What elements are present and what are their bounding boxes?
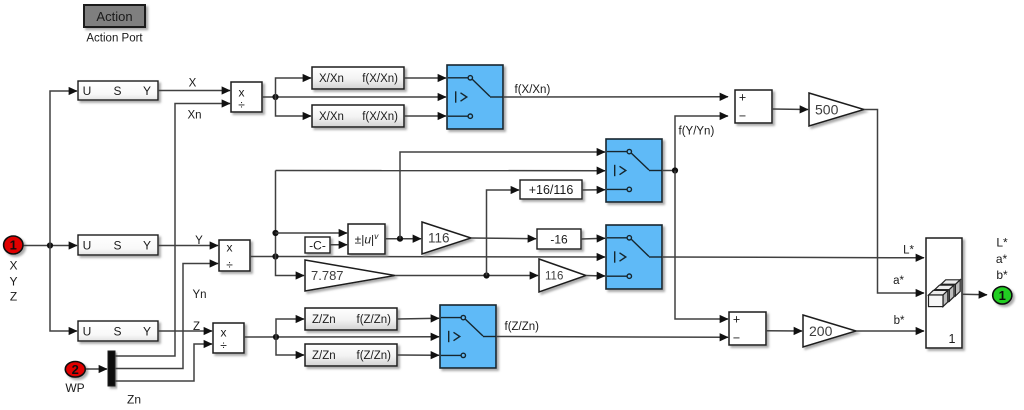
svg-text:x: x: [221, 326, 227, 340]
wire f(Y/Yn) to sum1 minus: [672, 116, 728, 174]
wire fcn X1 to switch1 in1: [404, 77, 446, 79]
svg-text:−: −: [739, 109, 746, 123]
wire switch3 to concat L*: [662, 256, 924, 259]
wire 7.787 to gain 116 lower: [395, 272, 538, 278]
svg-text:Y: Y: [143, 84, 151, 98]
wire switch1 to sum1 plus: [503, 96, 728, 98]
wire branch to bias +16/116: [487, 190, 520, 276]
wire junction up to selector X: [50, 91, 77, 246]
demux WP: [108, 351, 115, 386]
sum2 (fY - fZ): [729, 312, 766, 345]
svg-text:500: 500: [815, 101, 839, 117]
svg-text:1: 1: [949, 332, 956, 346]
svg-text:Yn: Yn: [192, 289, 206, 301]
svg-text:Action Port: Action Port: [86, 33, 143, 45]
svg-text:Z/Zn: Z/Zn: [312, 350, 336, 362]
subsystem f(X/Xn) lower: [312, 105, 404, 127]
bias +16/116 block: [520, 180, 582, 199]
svg-text:Z: Z: [193, 321, 200, 333]
product Z (z/Zn divide): [213, 323, 244, 353]
svg-text:+: +: [739, 90, 746, 104]
wire selector X to product X: [158, 90, 230, 92]
svg-text:−: −: [733, 331, 740, 345]
math power block |u|^v: [348, 224, 385, 254]
wire -16 to switch3 in1: [581, 237, 605, 240]
wire fcn X2 to switch1 in3: [404, 115, 446, 117]
wire switch4 to sum2 minus: [496, 336, 728, 339]
constant -C- (exponent): [305, 237, 330, 253]
subsystem f(Z/Zn) upper: [305, 308, 397, 330]
wire branch to fcn Z1: [276, 319, 304, 337]
wire Y ratio to power block: [276, 232, 348, 234]
svg-text:X/Xn: X/Xn: [319, 73, 344, 85]
switch1 f(X/Xn): [447, 65, 503, 129]
gain 7.787: [305, 260, 395, 291]
subsystem f(X/Xn) upper: [312, 67, 404, 89]
svg-text:f(X/Xn): f(X/Xn): [515, 84, 551, 96]
inport 2 (WP): [65, 362, 85, 378]
svg-text:L*: L*: [996, 236, 1008, 250]
wire +16/116 to switch2 in3: [582, 189, 605, 191]
svg-text:U: U: [83, 325, 92, 339]
svg-text:Action: Action: [96, 9, 132, 24]
wire demux Yn to product Y: [115, 264, 218, 369]
svg-text:b*: b*: [996, 268, 1008, 282]
svg-text:Z: Z: [10, 290, 17, 304]
wire sum2 to gain 200: [766, 330, 802, 332]
wire junction down to selector Z: [50, 246, 77, 332]
wire gain200 to concat b*: [856, 330, 924, 332]
wire selector Y to product Y: [158, 245, 218, 247]
svg-text:Y: Y: [9, 275, 17, 289]
svg-text:+: +: [733, 312, 740, 326]
wire fcn Z2 to switch4 in3: [397, 354, 439, 356]
svg-text:x: x: [227, 241, 233, 255]
svg-text:X/Xn: X/Xn: [319, 111, 344, 123]
wire power to gain 116 upper: [385, 236, 421, 242]
svg-text:116: 116: [545, 271, 563, 283]
wire -C- to power block: [330, 244, 347, 246]
wire fcn Z1 to switch4 in1: [397, 317, 439, 320]
svg-text:÷: ÷: [238, 98, 245, 112]
wire inport1 to selector Y: [24, 242, 78, 248]
inport 1 (XYZ): [4, 236, 23, 254]
svg-text:U: U: [83, 84, 92, 98]
wire demux Zn to product Z: [115, 344, 212, 381]
wire gain116 lower to switch3 in3: [586, 275, 605, 278]
wire gain500 to concat a*: [864, 110, 924, 294]
svg-text:WP: WP: [65, 381, 84, 395]
svg-text:7.787: 7.787: [311, 268, 344, 283]
gain 116 upper: [422, 222, 471, 254]
svg-text:a*: a*: [996, 252, 1008, 266]
wire branch to fcn X1: [276, 78, 312, 97]
svg-text:116: 116: [428, 231, 450, 246]
wire Y ratio to switch3 control: [272, 253, 605, 259]
subsystem f(Z/Zn) lower: [305, 344, 397, 366]
wire inport2 to demux: [86, 368, 107, 370]
svg-text:Zn: Zn: [127, 393, 141, 407]
selector Z (U S Y): [78, 321, 158, 341]
svg-text:1: 1: [10, 238, 17, 253]
svg-text:200: 200: [809, 323, 833, 339]
svg-text:U: U: [83, 239, 92, 253]
wire Y ratio to switch2 control: [276, 170, 606, 172]
wire switch2 out f(Y/Yn): [662, 170, 675, 172]
svg-text:S: S: [113, 239, 121, 253]
product X (x/Xn divide): [231, 82, 262, 112]
wire gain116 to bias -16: [471, 237, 536, 240]
svg-text:Z/Zn: Z/Zn: [312, 314, 336, 326]
svg-text:÷: ÷: [226, 258, 233, 272]
svg-text:+16/116: +16/116: [529, 183, 574, 197]
wire product X to switch1 control: [262, 94, 446, 100]
wire branch to fcn Z2: [276, 337, 304, 355]
switch3 L*: [606, 225, 662, 289]
svg-text:2: 2: [72, 362, 79, 377]
outport 1 (Lab): [993, 287, 1012, 305]
svg-text:L*: L*: [903, 245, 914, 257]
svg-text:f(Z/Zn): f(Z/Zn): [357, 350, 392, 362]
svg-text:Y: Y: [143, 239, 151, 253]
svg-text:Y: Y: [195, 235, 203, 247]
svg-text:f(Z/Zn): f(Z/Zn): [357, 314, 392, 326]
gain 200: [803, 315, 856, 347]
svg-text:X: X: [189, 78, 197, 90]
gain 500: [809, 93, 864, 126]
wire concat to outport: [962, 293, 987, 296]
svg-text:X: X: [9, 259, 17, 273]
switch4 f(Z/Zn): [440, 305, 496, 368]
svg-text:1: 1: [999, 288, 1006, 303]
wire branch to fcn X2: [276, 97, 312, 116]
gain 116 lower: [539, 259, 586, 292]
wire product Y out: [250, 256, 276, 258]
svg-text:÷: ÷: [220, 339, 227, 353]
svg-text:f(Z/Zn): f(Z/Zn): [505, 321, 540, 333]
svg-text:S: S: [113, 325, 121, 339]
vector concatenate block: [926, 238, 962, 348]
svg-text:Xn: Xn: [187, 110, 201, 122]
svg-text:-16: -16: [550, 233, 568, 247]
selector X (U S Y): [78, 81, 158, 100]
svg-text:a*: a*: [893, 275, 904, 287]
svg-text:f(Y/Yn): f(Y/Yn): [679, 125, 715, 137]
Action Port block: [84, 5, 145, 27]
svg-text:f(X/Xn): f(X/Xn): [362, 73, 398, 85]
wire f(Y/Yn) to sum2 plus: [675, 171, 728, 320]
wire demux Xn to product X: [115, 104, 230, 357]
wire product Z to switch4 control: [244, 334, 439, 340]
svg-text:Y: Y: [143, 325, 151, 339]
svg-text:S: S: [113, 84, 121, 98]
selector Y (U S Y): [78, 235, 158, 255]
svg-text:b*: b*: [894, 315, 905, 327]
wire power branch to switch2 in1: [400, 152, 605, 239]
sum1 (fX - fY): [735, 90, 772, 123]
wire selector Z to product Z: [158, 330, 212, 332]
switch2 f(Y/Yn): [606, 139, 662, 202]
svg-text:f(X/Xn): f(X/Xn): [362, 111, 398, 123]
svg-text:-C-: -C-: [309, 239, 326, 253]
wire Y ratio vertical: [272, 171, 304, 276]
wire sum1 to gain 500: [772, 108, 808, 111]
product Y (y/Yn divide): [219, 240, 250, 272]
bias -16 block: [537, 229, 581, 249]
